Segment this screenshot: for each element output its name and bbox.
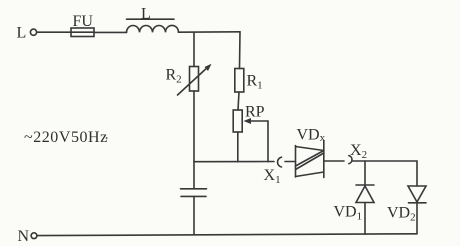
potentiometer RP xyxy=(233,110,268,132)
terminal L xyxy=(30,29,36,35)
resistor R1 xyxy=(235,69,244,93)
inductor L xyxy=(127,19,179,32)
svg-text:FU: FU xyxy=(73,13,94,30)
triac VDx xyxy=(296,141,324,178)
svg-text:~220V50Hz: ~220V50Hz xyxy=(24,129,108,146)
wire xyxy=(238,92,239,110)
diode VD2 xyxy=(408,186,426,203)
resistor R2 xyxy=(178,64,212,95)
wire xyxy=(94,31,127,33)
wire xyxy=(324,160,344,162)
wire xyxy=(285,161,296,163)
wire xyxy=(239,32,242,69)
wire xyxy=(193,162,195,189)
wire xyxy=(179,31,241,33)
wire xyxy=(416,203,418,234)
svg-text:N: N xyxy=(18,228,30,245)
diode VD1 xyxy=(356,185,374,203)
wire xyxy=(364,161,366,185)
wire xyxy=(37,31,71,33)
svg-text:RP: RP xyxy=(245,104,265,121)
terminal N xyxy=(31,233,37,239)
svg-text:L: L xyxy=(17,25,27,42)
wire xyxy=(267,121,269,162)
wire xyxy=(364,203,366,235)
wire xyxy=(37,234,417,236)
wire xyxy=(193,196,195,234)
wire xyxy=(193,32,195,66)
wire xyxy=(194,161,274,163)
connector X1 xyxy=(277,157,281,167)
wire xyxy=(193,91,195,162)
fuse FU xyxy=(71,28,94,37)
wire xyxy=(416,161,418,186)
connector X2 xyxy=(349,156,352,164)
wire xyxy=(237,132,239,162)
svg-text:L: L xyxy=(141,6,151,23)
capacitor C xyxy=(181,189,207,197)
wire xyxy=(353,160,418,162)
